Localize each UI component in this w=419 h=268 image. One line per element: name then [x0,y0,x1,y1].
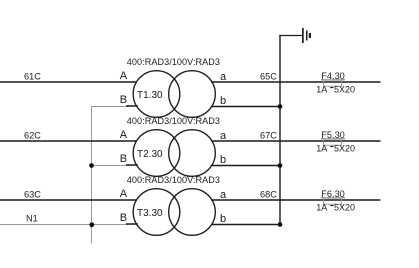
ground [302,28,311,43]
wire B2 [92,165,130,167]
svg-text:67C: 67C [260,131,277,141]
svg-text:400:RAD3/100V:RAD3: 400:RAD3/100V:RAD3 [127,116,220,126]
fuse F4.30 rating dash [330,87,333,88]
junction dot N1 on riser [89,222,94,227]
svg-text:1A: 1A [316,84,327,94]
wire N1 riser [91,106,93,243]
svg-text:B: B [120,212,127,224]
wire B3 stub [126,223,138,225]
svg-text:a: a [220,189,227,201]
svg-text:1A: 1A [316,202,327,212]
wire b3 [211,224,280,226]
wire 63C [0,199,137,201]
fuse F6.30 body [324,198,342,204]
transformer T1.30 primary winding [133,71,180,118]
wire b2 [211,165,280,167]
wire 61C [0,81,137,83]
wire ground lead [279,35,302,37]
svg-text:5X20: 5X20 [334,84,355,94]
svg-text:1A: 1A [316,143,327,153]
svg-text:B: B [120,94,127,106]
svg-text:T1.30: T1.30 [137,90,163,101]
svg-text:A: A [120,188,128,200]
svg-text:5X20: 5X20 [334,202,355,212]
svg-text:A: A [120,70,128,82]
svg-text:B: B [120,153,127,165]
wire 62C [0,140,137,142]
transformer T1.30 secondary winding [169,71,216,118]
wire B2 stub [126,164,138,166]
svg-text:400:RAD3/100V:RAD3: 400:RAD3/100V:RAD3 [127,57,220,67]
fuse F4.30 designator underline [321,79,345,81]
junction dot b1 on bus [278,104,283,109]
svg-text:a: a [220,71,227,83]
svg-text:68C: 68C [260,190,277,200]
fuse F5.30 designator underline [321,138,345,140]
svg-text:62C: 62C [24,130,41,140]
fuse F6.30 designator underline [321,197,345,199]
wire a3 / 68C [211,199,381,201]
transformer T2.30 primary winding [133,130,180,177]
svg-text:T3.30: T3.30 [137,208,163,219]
wire neutral bus [279,35,281,225]
junction dot B2 on riser [89,163,94,168]
svg-text:63C: 63C [24,189,41,199]
svg-text:b: b [220,95,226,107]
svg-text:T2.30: T2.30 [137,149,163,160]
svg-text:61C: 61C [24,71,41,81]
fuse F6.30 rating dash [330,205,333,206]
fuse F5.30 body [324,139,342,145]
wire B1 stub [126,105,138,107]
wire B1 [92,106,130,108]
svg-text:b: b [220,213,226,225]
transformer T3.30 primary winding [133,189,180,236]
junction dot b2 on bus [278,163,283,168]
svg-text:N1: N1 [26,214,38,224]
transformer T2.30 secondary winding [169,130,216,177]
wire a2 / 67C [211,140,381,142]
svg-text:b: b [220,154,226,166]
transformer T3.30 secondary winding [169,189,216,236]
junction dot b3 on bus [278,222,283,227]
svg-text:65C: 65C [260,72,277,82]
wire a1 / 65C [211,81,381,83]
svg-text:400:RAD3/100V:RAD3: 400:RAD3/100V:RAD3 [127,175,220,185]
wire b1 [211,106,280,108]
svg-text:a: a [220,130,227,142]
fuse F4.30 body [324,80,342,86]
svg-text:A: A [120,129,128,141]
fuse F5.30 rating dash [330,146,333,147]
svg-text:5X20: 5X20 [334,143,355,153]
wire N1 [0,224,129,226]
